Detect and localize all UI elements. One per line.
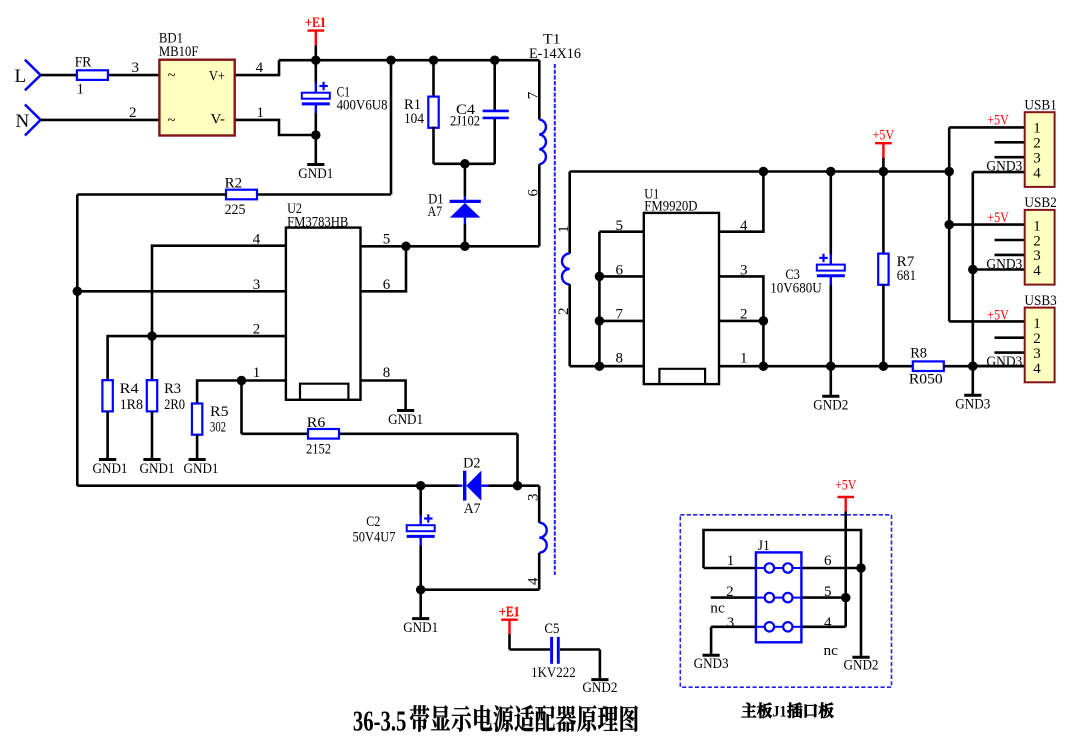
svg-text:4: 4 [740, 218, 748, 234]
svg-text:2: 2 [740, 306, 748, 322]
svg-text:V-: V- [211, 111, 226, 127]
svg-text:4: 4 [525, 577, 541, 585]
svg-text:6: 6 [824, 553, 832, 569]
svg-text:2J102: 2J102 [450, 113, 480, 129]
svg-text:2: 2 [253, 321, 260, 337]
svg-text:C5: C5 [544, 621, 559, 637]
svg-text:A7: A7 [428, 204, 443, 220]
svg-text:+5V: +5V [987, 112, 1009, 128]
svg-text:1: 1 [1033, 316, 1041, 332]
svg-text:1: 1 [556, 225, 572, 233]
svg-text:5: 5 [383, 232, 391, 248]
svg-text:MB10F: MB10F [159, 44, 199, 60]
svg-text:104: 104 [404, 111, 424, 127]
svg-text:7: 7 [616, 306, 624, 322]
svg-text:1: 1 [253, 365, 260, 381]
svg-text:~: ~ [167, 113, 175, 129]
svg-text:4: 4 [1033, 361, 1041, 377]
svg-text:4: 4 [253, 232, 261, 248]
svg-text:2: 2 [1033, 136, 1041, 152]
svg-text:GND3: GND3 [694, 656, 729, 672]
svg-text:R8: R8 [910, 346, 927, 362]
svg-text:GND2: GND2 [582, 680, 617, 696]
svg-text:R3: R3 [164, 381, 181, 397]
svg-text:A7: A7 [464, 501, 481, 517]
svg-text:USB2: USB2 [1024, 195, 1056, 211]
svg-text:R5: R5 [210, 404, 229, 420]
svg-text:50V4U7: 50V4U7 [353, 529, 396, 545]
svg-text:1R8: 1R8 [120, 397, 143, 413]
svg-text:400V6U8: 400V6U8 [337, 98, 388, 114]
svg-text:GND1: GND1 [184, 461, 219, 477]
svg-text:GND1: GND1 [93, 461, 128, 477]
svg-text:7: 7 [526, 91, 542, 99]
svg-text:GND3: GND3 [986, 159, 1022, 175]
svg-text:R6: R6 [307, 415, 326, 431]
svg-text:J1: J1 [772, 704, 786, 721]
svg-text:+5V: +5V [835, 477, 857, 493]
svg-text:GND1: GND1 [140, 461, 175, 477]
svg-text:4: 4 [1033, 263, 1041, 279]
svg-text:J1: J1 [758, 538, 770, 554]
svg-text:1: 1 [740, 351, 748, 367]
svg-text:6: 6 [616, 263, 624, 279]
svg-text:E-14X16: E-14X16 [529, 46, 581, 62]
svg-text:2: 2 [726, 584, 734, 600]
svg-text:2R0: 2R0 [164, 397, 185, 413]
svg-text:FR: FR [75, 55, 92, 71]
svg-text:2: 2 [129, 105, 137, 121]
svg-text:R050: R050 [909, 371, 943, 387]
svg-text:681: 681 [897, 268, 916, 284]
svg-text:GND2: GND2 [844, 658, 879, 674]
svg-text:FM9920D: FM9920D [644, 198, 697, 214]
svg-text:+5V: +5V [873, 128, 895, 144]
svg-text:USB1: USB1 [1024, 98, 1056, 114]
svg-text:3: 3 [525, 494, 541, 502]
svg-text:3: 3 [727, 615, 735, 631]
svg-text:3: 3 [1033, 248, 1041, 264]
svg-text:3: 3 [1033, 151, 1041, 167]
svg-text:5: 5 [616, 218, 624, 234]
svg-text:3: 3 [132, 60, 140, 76]
svg-text:2: 2 [1033, 331, 1041, 347]
svg-text:3: 3 [1033, 346, 1041, 362]
svg-text:5: 5 [824, 584, 832, 600]
svg-text:nc: nc [824, 643, 839, 659]
svg-text:+E1: +E1 [305, 15, 326, 31]
svg-text:2: 2 [1033, 233, 1041, 249]
svg-text:1KV222: 1KV222 [531, 665, 576, 681]
svg-text:GND1: GND1 [403, 620, 438, 636]
svg-text:225: 225 [225, 202, 246, 218]
svg-text:2: 2 [556, 308, 572, 316]
svg-text:1: 1 [77, 82, 85, 98]
svg-text:GND3: GND3 [986, 354, 1022, 370]
svg-text:~: ~ [167, 68, 175, 84]
svg-text:1: 1 [1033, 218, 1041, 234]
svg-text:R4: R4 [120, 381, 140, 397]
svg-text:302: 302 [210, 419, 226, 435]
svg-text:2152: 2152 [306, 441, 331, 457]
svg-text:8: 8 [383, 365, 391, 381]
svg-text:GND1: GND1 [388, 412, 423, 428]
svg-text:1: 1 [727, 553, 735, 569]
svg-text:D2: D2 [463, 456, 480, 472]
svg-text:3: 3 [740, 263, 748, 279]
svg-text:10V680U: 10V680U [770, 280, 822, 296]
svg-text:nc: nc [710, 600, 725, 616]
svg-text:+E1: +E1 [499, 605, 519, 621]
svg-text:1: 1 [1033, 121, 1041, 137]
svg-text:8: 8 [616, 351, 624, 367]
svg-text:GND2: GND2 [813, 398, 848, 414]
svg-text:+5V: +5V [987, 210, 1009, 226]
svg-text:R2: R2 [225, 176, 243, 192]
svg-text:USB3: USB3 [1024, 293, 1056, 309]
svg-text:V+: V+ [209, 69, 225, 85]
svg-text:L: L [15, 66, 27, 87]
svg-text:GND1: GND1 [298, 166, 333, 182]
svg-text:1: 1 [257, 105, 265, 121]
svg-text:GND3: GND3 [986, 256, 1022, 272]
svg-text:4: 4 [824, 615, 832, 631]
svg-text:C2: C2 [366, 514, 380, 530]
svg-text:+5V: +5V [987, 308, 1009, 324]
svg-text:3: 3 [253, 277, 260, 293]
svg-text:GND3: GND3 [955, 397, 990, 413]
svg-text:N: N [16, 111, 30, 132]
svg-text:6: 6 [526, 189, 542, 197]
svg-text:6: 6 [383, 277, 391, 293]
svg-text:4: 4 [1033, 165, 1041, 181]
svg-text:FM3783HB: FM3783HB [287, 214, 348, 230]
svg-text:36-3.5: 36-3.5 [353, 705, 407, 737]
svg-text:4: 4 [256, 60, 264, 76]
